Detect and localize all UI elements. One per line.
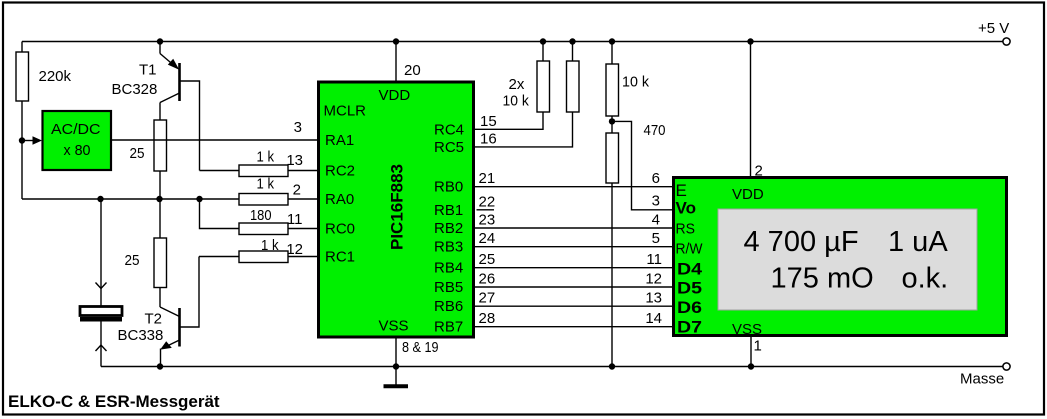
svg-text:4: 4 (652, 212, 660, 229)
wire VDD pin20 (395, 42, 397, 81)
svg-text:21: 21 (479, 170, 496, 187)
svg-text:23: 23 (479, 212, 496, 229)
wire VSS pin 8 & 19 (395, 339, 397, 367)
svg-text:15: 15 (480, 113, 497, 130)
svg-text:25: 25 (479, 251, 496, 268)
svg-text:T2: T2 (145, 311, 163, 328)
microcontroller U1 PIC16F883 box (319, 82, 474, 337)
svg-text:220k: 220k (39, 68, 72, 85)
probe arrow down (96, 283, 107, 289)
wire RB2 to RS (475, 227, 672, 229)
node 10k/470 (609, 118, 615, 124)
probe arrow up (96, 345, 107, 351)
wire left vertical from +5V to 220k (21, 42, 23, 53)
wire capacitor top feed (100, 199, 102, 307)
svg-text:24: 24 (479, 230, 496, 247)
wire R25a to rail (159, 171, 161, 238)
node R25 mid (156, 196, 162, 202)
wire RC2 pin13 row (200, 170, 240, 172)
transistor T2 base wire (180, 257, 199, 328)
transistor T1 collector (160, 93, 180, 103)
amplifier AC/DC x80 box (43, 111, 112, 170)
node T2 emitter (157, 363, 163, 369)
svg-text:13: 13 (645, 290, 662, 307)
wire RA1 from AC/DC to PIC (drawn over R25a) (111, 139, 317, 141)
svg-text:25: 25 (125, 252, 140, 269)
capacitor elko plate bottom (80, 317, 122, 322)
svg-text:14: 14 (645, 310, 662, 327)
svg-text:RB0: RB0 (434, 179, 463, 196)
node T1/+5V (157, 38, 163, 44)
svg-text:RC5: RC5 (434, 139, 464, 156)
svg-text:RB7: RB7 (434, 319, 463, 336)
node 180 branch (196, 196, 202, 202)
svg-text:o.k.: o.k. (902, 263, 949, 295)
svg-text:8 & 19: 8 & 19 (402, 339, 439, 356)
resistor 1k (RA0) (239, 194, 288, 206)
resistor 220k (16, 52, 29, 101)
node 10kC (609, 38, 615, 44)
svg-text:10 k: 10 k (622, 73, 649, 90)
svg-text:BC328: BC328 (112, 81, 158, 98)
node 470 gnd (609, 363, 615, 369)
svg-text:2: 2 (755, 163, 763, 180)
svg-text:11: 11 (287, 211, 303, 228)
svg-text:Vo: Vo (676, 199, 697, 218)
wire R25b to T2 collector (159, 288, 161, 308)
svg-text:20: 20 (404, 62, 421, 79)
svg-text:VDD: VDD (732, 186, 764, 203)
svg-text:PIC16F883: PIC16F883 (388, 164, 407, 250)
node AC/DC input (19, 137, 25, 143)
wire RB7 to D7 (475, 326, 672, 328)
svg-text:2: 2 (293, 182, 301, 199)
wire 220k bottom down to node rail y=199 (21, 101, 23, 199)
display screen (718, 209, 977, 310)
svg-text:3: 3 (294, 119, 302, 136)
wire T1 collector to R25a (159, 103, 161, 121)
svg-text:1 k: 1 k (261, 237, 279, 254)
svg-text:RB4: RB4 (434, 260, 463, 277)
svg-text:4 700 µF: 4 700 µF (744, 226, 859, 258)
svg-text:5: 5 (652, 230, 660, 247)
arrow into AC/DC input (22, 140, 33, 142)
wire capacitor bottom to Masse (100, 322, 102, 367)
resistor 2x10k B (567, 61, 580, 112)
display LCD box (674, 178, 1007, 336)
svg-text:3: 3 (652, 192, 660, 209)
svg-text:VDD: VDD (379, 87, 411, 104)
terminal +5V (1003, 38, 1010, 45)
svg-text:175 mO: 175 mO (771, 263, 874, 295)
svg-text:D7: D7 (677, 317, 702, 336)
resistor 2x10k A (537, 61, 550, 112)
svg-text:25: 25 (130, 145, 145, 162)
resistor 25 lower (154, 238, 167, 288)
resistor 1k (RC2) (239, 165, 288, 177)
svg-text:RC0: RC0 (325, 221, 355, 238)
svg-text:1 uA: 1 uA (888, 226, 948, 258)
wire RB3 to R/W (475, 246, 672, 248)
svg-text:D4: D4 (677, 259, 703, 278)
wire RB4 to D4 (475, 267, 672, 269)
svg-text:Masse: Masse (960, 371, 1004, 388)
wire RA0 pin2 row right part (288, 198, 317, 200)
resistor 180 (RC0) (239, 223, 288, 235)
svg-text:6: 6 (652, 170, 660, 187)
svg-text:16: 16 (480, 130, 497, 147)
svg-text:1: 1 (754, 338, 762, 355)
wire 180 branch (200, 199, 240, 229)
svg-text:RB5: RB5 (434, 279, 463, 296)
svg-text:R/W: R/W (676, 240, 704, 257)
svg-text:2x: 2x (509, 76, 525, 93)
svg-text:28: 28 (479, 310, 496, 327)
svg-text:12: 12 (286, 241, 303, 258)
svg-text:RA1: RA1 (325, 132, 354, 149)
svg-text:RB1: RB1 (434, 202, 463, 219)
wire 10kA top feed (542, 42, 544, 62)
svg-text:13: 13 (286, 152, 303, 169)
wire Masse rail (101, 366, 1003, 368)
svg-text:RB3: RB3 (434, 239, 463, 256)
wire 470 bottom to Masse (611, 183, 613, 367)
svg-text:11: 11 (646, 251, 662, 268)
svg-text:E: E (676, 181, 687, 200)
wire RC4 pin15 (475, 112, 543, 129)
svg-text:+5 V: +5 V (978, 20, 1009, 37)
svg-text:RC4: RC4 (434, 121, 464, 138)
wire RB0 to E (475, 186, 672, 188)
resistor 25 upper (154, 120, 167, 171)
node LCD VSS (748, 363, 754, 369)
svg-text:D6: D6 (677, 298, 702, 317)
svg-text:12: 12 (645, 271, 662, 288)
svg-text:RC2: RC2 (325, 163, 355, 180)
resistor 1k (RC1) (239, 251, 288, 263)
terminal Masse (1003, 363, 1010, 370)
svg-text:ELKO-C & ESR-Messgerät: ELKO-C & ESR-Messgerät (8, 392, 220, 411)
wire RB6 to D6 (475, 305, 672, 307)
transistor T2 base bar (178, 308, 181, 347)
wire LCD VSS pin1 (750, 337, 752, 367)
resistor 470 (606, 133, 619, 183)
node 10kA (540, 38, 546, 44)
svg-text:180: 180 (250, 207, 272, 224)
ground (384, 384, 409, 388)
svg-text:VSS: VSS (732, 321, 762, 338)
wire 10k to 470 node (611, 116, 613, 133)
wire RB5 to D5 (475, 286, 672, 288)
svg-text:VSS: VSS (379, 317, 409, 334)
svg-text:D5: D5 (677, 279, 702, 298)
node LCD VDD (747, 38, 753, 44)
svg-text:1 k: 1 k (257, 149, 275, 166)
wire RC5 pin16 (475, 112, 573, 147)
svg-text:22: 22 (479, 193, 496, 210)
wire 10kB top feed (572, 42, 574, 62)
svg-text:RA0: RA0 (325, 191, 354, 208)
node PIC VDD (393, 38, 399, 44)
svg-text:RB6: RB6 (434, 298, 463, 315)
svg-text:MCLR: MCLR (324, 103, 367, 120)
svg-text:10 k: 10 k (503, 93, 530, 110)
transistor T1 base bar (178, 63, 181, 101)
wire T1 emitter feed (159, 42, 161, 54)
wire T2 emitter to Masse (160, 349, 162, 367)
node PIC VSS (393, 363, 399, 369)
wire ground stem (395, 367, 397, 386)
wire pin22 stub (477, 209, 495, 211)
svg-text:27: 27 (479, 290, 496, 307)
node cap top (97, 196, 103, 202)
wire +5V rail (22, 41, 1003, 43)
svg-text:RC1: RC1 (325, 249, 355, 266)
resistor 10k (606, 64, 619, 116)
transistor T1 base wire (180, 81, 200, 171)
node 10kB (569, 38, 575, 44)
svg-text:RS: RS (676, 220, 696, 237)
capacitor elko plate top (80, 307, 122, 316)
svg-text:26: 26 (479, 271, 496, 288)
svg-text:RB2: RB2 (434, 220, 463, 237)
svg-text:470: 470 (644, 122, 666, 139)
wire node jog to Vo (612, 121, 672, 209)
transistor T2 collector (160, 307, 180, 317)
svg-text:1 k: 1 k (257, 176, 275, 193)
transistor T2 emitter+arrow (162, 340, 180, 349)
transistor T1 emitter+arrow (160, 54, 177, 69)
wire RC1 pin12 row (199, 256, 239, 258)
wire LCD VDD pin2 (750, 42, 752, 177)
wire node rail y=199 (22, 198, 239, 200)
wire 10k top feed (611, 42, 613, 65)
svg-text:T1: T1 (139, 62, 157, 79)
svg-text:x 80: x 80 (64, 142, 91, 159)
svg-text:AC/DC: AC/DC (51, 121, 101, 138)
svg-text:BC338: BC338 (118, 327, 164, 344)
